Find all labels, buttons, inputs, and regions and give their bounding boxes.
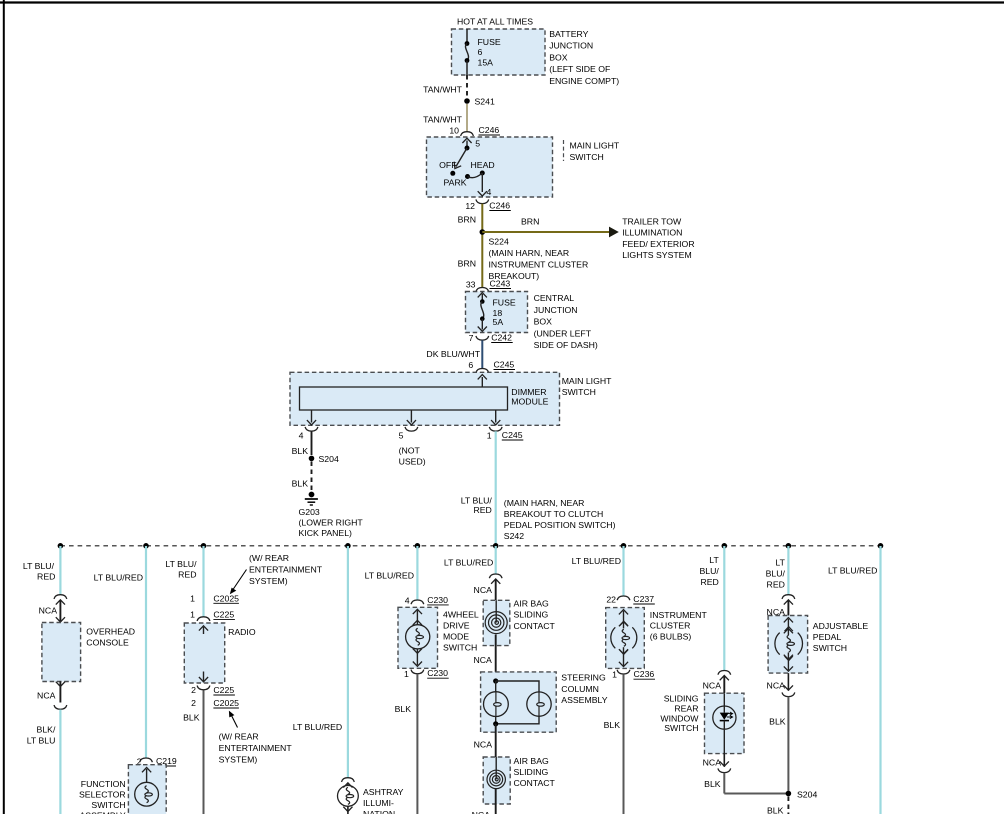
steering lamp junction bottom	[493, 721, 498, 726]
fuse 18 5A value label	[493, 297, 516, 326]
svg-text:JUNCTION: JUNCTION	[549, 41, 593, 51]
4wheel drive mode switch box	[398, 607, 438, 668]
svg-text:AIR BAG: AIR BAG	[514, 599, 549, 609]
svg-text:10: 10	[449, 126, 459, 136]
wire BLK/LT BLU col1	[59, 710, 61, 814]
svg-text:ENTERTAINMENT: ENTERTAINMENT	[249, 565, 323, 575]
svg-text:SWITCH: SWITCH	[570, 152, 604, 162]
arrow below cluster bulb	[619, 649, 628, 654]
svg-text:SWITCH: SWITCH	[813, 643, 847, 653]
svg-text:(6 BULBS): (6 BULBS)	[650, 631, 692, 641]
svg-text:LT: LT	[709, 555, 719, 565]
adjustable pedal switch label	[813, 621, 869, 653]
wire fuse 6 bottom lead	[466, 61, 468, 76]
svg-text:RED: RED	[178, 570, 196, 580]
wire NCA steering to airbag B	[495, 724, 497, 757]
svg-text:ILLUMI-: ILLUMI-	[363, 798, 394, 808]
arrow into cluster	[619, 610, 628, 615]
svg-text:(MAIN HARN, NEAR: (MAIN HARN, NEAR	[504, 498, 585, 508]
svg-text:NCA: NCA	[703, 681, 722, 691]
connector symbol C242	[476, 336, 489, 340]
sliding rear window switch box	[705, 693, 745, 753]
wire BLK srw to elbow	[723, 773, 725, 794]
svg-text:S241: S241	[475, 97, 495, 107]
svg-text:RED: RED	[767, 580, 785, 590]
contact OFF	[450, 171, 455, 176]
svg-text:JUNCTION: JUNCTION	[534, 305, 578, 315]
svg-text:C2025: C2025	[213, 698, 239, 708]
svg-text:(NOT: (NOT	[399, 446, 421, 456]
wire NCA to airbag A	[495, 580, 497, 601]
svg-text:1: 1	[190, 593, 195, 603]
svg-text:BLK: BLK	[395, 704, 412, 714]
wire pedal box to connector	[787, 673, 789, 691]
svg-text:C243: C243	[490, 279, 511, 289]
contact PARK	[465, 174, 470, 179]
svg-text:BLK: BLK	[704, 779, 721, 789]
air bag sliding contact label B	[514, 756, 556, 788]
arrow below pedal lamp	[784, 655, 793, 660]
svg-text:C2025: C2025	[213, 593, 239, 603]
svg-text:2: 2	[191, 698, 196, 708]
svg-text:C230: C230	[427, 595, 448, 605]
switch wiper to OFF	[456, 148, 467, 167]
connector symbol C245 pin 6	[476, 369, 489, 373]
radio box	[184, 623, 224, 683]
arrow into overhead console	[56, 617, 65, 622]
svg-text:12: 12	[465, 201, 475, 211]
connector col9 lower	[782, 692, 795, 696]
wire dimmer pin 1 shaft	[495, 410, 497, 423]
svg-text:PEDAL POSITION SWITCH): PEDAL POSITION SWITCH)	[504, 520, 616, 530]
wire dimmer pin 4 shaft	[311, 410, 313, 423]
svg-text:BRN: BRN	[458, 259, 476, 269]
bus junction x=495.7	[493, 543, 499, 549]
wire cluster top shaft	[623, 611, 625, 629]
svg-text:NCA: NCA	[473, 655, 492, 665]
wire srw box to connector	[723, 754, 725, 767]
bus junction x=146	[143, 543, 149, 549]
wire steering lamps top rail	[496, 681, 539, 692]
svg-text:S204: S204	[319, 454, 339, 464]
svg-text:REAR: REAR	[674, 703, 698, 713]
page border top	[0, 1, 1004, 3]
svg-text:OVERHEAD: OVERHEAD	[86, 627, 135, 637]
svg-text:NCA: NCA	[703, 757, 722, 767]
wire BLK pin 4 to S204	[311, 431, 313, 455]
svg-text:4: 4	[405, 595, 410, 605]
svg-text:SYSTEM): SYSTEM)	[249, 576, 288, 586]
arrow above pedal lamp	[784, 629, 793, 634]
svg-text:SELECTOR: SELECTOR	[79, 789, 126, 799]
wire HEAD to pin 4	[481, 173, 483, 192]
arrow into 4wd switch	[413, 609, 422, 614]
svg-text:SLIDING: SLIDING	[514, 610, 549, 620]
wire NCA to pedal switch	[787, 601, 789, 616]
svg-text:ADJUSTABLE: ADJUSTABLE	[813, 621, 869, 631]
svg-text:BLU/: BLU/	[766, 569, 786, 579]
connector symbol C246 pin 12	[476, 199, 489, 203]
svg-text:ASSEMBLY: ASSEMBLY	[79, 811, 125, 814]
wire BLK 4wd ground	[416, 674, 418, 814]
svg-text:FUNCTION: FUNCTION	[81, 779, 126, 789]
svg-text:MODULE: MODULE	[511, 397, 548, 407]
svg-text:C237: C237	[633, 594, 654, 604]
svg-text:LT BLU/: LT BLU/	[23, 561, 55, 571]
connector symbol C225 pin 2	[197, 686, 210, 690]
bus junction x=880.5	[878, 543, 884, 549]
arrow into pin 5	[462, 138, 471, 143]
main light switch dimmer box	[290, 372, 560, 425]
wire NCA console exit	[59, 681, 61, 702]
svg-text:OFF: OFF	[439, 160, 456, 170]
arrow dimmer pin 4	[307, 420, 316, 425]
svg-text:S224: S224	[489, 237, 509, 247]
svg-text:6: 6	[478, 47, 483, 57]
wire NCA airbag A to steering	[495, 635, 497, 682]
steering column lamp right	[527, 692, 551, 716]
svg-text:ILLUMINATION: ILLUMINATION	[622, 228, 682, 238]
wire BLK pedal to S204	[787, 697, 789, 794]
svg-text:BREAKOUT TO CLUTCH: BREAKOUT TO CLUTCH	[504, 509, 603, 519]
svg-text:ASSEMBLY: ASSEMBLY	[561, 695, 607, 705]
arrow into pedal switch	[784, 618, 793, 623]
svg-text:LT BLU/: LT BLU/	[165, 559, 197, 569]
LED sliding rear window	[713, 693, 736, 753]
svg-text:22: 22	[606, 595, 616, 605]
svg-text:(W/ REAR: (W/ REAR	[219, 732, 259, 742]
illumination lamp function selector	[135, 782, 159, 806]
function selector label	[79, 779, 126, 814]
svg-text:NATION: NATION	[363, 809, 395, 814]
arrow col8 upper	[720, 676, 729, 681]
label NOT USED	[399, 446, 426, 467]
4wheel drive mode switch label	[443, 610, 479, 653]
wire fuse 6 top lead	[466, 29, 468, 43]
wire LT BLU/RED col4	[347, 546, 349, 778]
wire BLK below S204	[787, 797, 789, 814]
connector col8 upper	[718, 671, 731, 675]
label LT BLU/ RED col8	[699, 555, 719, 587]
ground G203 symbol	[305, 492, 318, 505]
svg-text:PARK: PARK	[444, 178, 467, 188]
arrow to C2025 upper	[233, 570, 247, 590]
wire LT BLU/RED col8	[723, 546, 725, 671]
svg-text:5A: 5A	[493, 317, 504, 327]
svg-text:BRN: BRN	[521, 217, 539, 227]
arrow dimmer pin 1	[491, 420, 500, 425]
4wd mode switch lamp	[406, 625, 430, 649]
splice S204 left	[309, 456, 315, 462]
instrument cluster box	[606, 608, 645, 669]
svg-text:1: 1	[404, 669, 409, 679]
wire left lamp bottom lead	[495, 717, 497, 724]
wire LT BLU/RED col10	[879, 546, 881, 814]
arrow above cluster bulb	[619, 622, 628, 627]
svg-text:5: 5	[399, 431, 404, 441]
svg-text:G203: G203	[299, 507, 320, 517]
svg-text:USED): USED)	[399, 457, 426, 467]
splice S241	[464, 98, 470, 104]
svg-text:DK BLU/WHT: DK BLU/WHT	[426, 349, 480, 359]
central junction box	[466, 292, 528, 333]
svg-text:BLK: BLK	[767, 806, 784, 814]
label ashtray illumination	[363, 787, 404, 814]
arrow out of radio	[199, 677, 208, 682]
function selector switch assembly box	[128, 765, 166, 814]
wire switch pin 5 shaft	[466, 141, 468, 149]
bus junction x=417.4	[415, 543, 421, 549]
svg-text:TRAILER TOW: TRAILER TOW	[622, 217, 682, 227]
svg-text:SWITCH: SWITCH	[562, 387, 596, 397]
steering column assembly label	[561, 673, 607, 705]
svg-text:RED: RED	[700, 577, 718, 587]
svg-text:BLK/: BLK/	[37, 725, 56, 735]
svg-text:CENTRAL: CENTRAL	[534, 293, 575, 303]
svg-text:STEERING: STEERING	[561, 673, 606, 683]
arrow above 4wd lamp	[413, 620, 422, 625]
central junction box label	[534, 293, 598, 350]
arrow col4	[343, 783, 352, 788]
svg-text:TAN/WHT: TAN/WHT	[423, 115, 463, 125]
connector symbol C225 pin 1	[197, 617, 210, 621]
wire LT BLU/RED col3	[202, 546, 204, 617]
svg-text:COLUMN: COLUMN	[561, 684, 599, 694]
splice S224	[480, 229, 486, 235]
connector symbol C236	[617, 670, 630, 674]
svg-text:KICK PANEL): KICK PANEL)	[299, 528, 353, 538]
svg-text:BLU/: BLU/	[699, 566, 719, 576]
wire NCA col1 to console	[59, 601, 61, 622]
bus junction x=724.3	[722, 543, 728, 549]
wire fuse 18 bottom lead	[481, 319, 483, 330]
svg-text:NCA: NCA	[39, 606, 58, 616]
wire TAN/WHT fuse to S241	[466, 75, 468, 97]
arrow col1 upper	[56, 600, 65, 605]
arrow to trailer tow system	[609, 227, 619, 238]
svg-text:BLK: BLK	[769, 717, 786, 727]
svg-text:INSTRUMENT: INSTRUMENT	[650, 610, 708, 620]
wire DK BLU/WHT C242 to C245	[481, 340, 483, 369]
svg-text:C242: C242	[491, 333, 512, 343]
svg-text:LT BLU/RED: LT BLU/RED	[365, 571, 414, 581]
svg-text:ASHTRAY: ASHTRAY	[363, 787, 404, 797]
main light switch label tick	[563, 140, 565, 161]
fuse 6 15A	[465, 41, 470, 63]
svg-text:FEED/ EXTERIOR: FEED/ EXTERIOR	[622, 239, 694, 249]
main light switch label	[570, 141, 620, 163]
svg-text:MAIN LIGHT: MAIN LIGHT	[562, 376, 612, 386]
svg-text:C245: C245	[494, 360, 515, 370]
bus wire LT BLU/RED	[60, 545, 880, 547]
svg-text:HEAD: HEAD	[471, 160, 495, 170]
bus junction x=788.4	[786, 543, 792, 549]
connector symbol dimmer pin 5	[405, 427, 418, 431]
svg-text:ENTERTAINMENT: ENTERTAINMENT	[219, 743, 293, 753]
arrow out of srw switch	[720, 761, 729, 766]
fuse 6 15A value label	[478, 37, 501, 67]
wire ashtray top lead	[347, 784, 349, 786]
overhead console box	[42, 623, 81, 682]
svg-text:HOT AT ALL TIMES: HOT AT ALL TIMES	[457, 17, 533, 27]
bus junction x=60.4	[58, 543, 64, 549]
connector symbol C246 pin 10	[461, 132, 474, 136]
svg-text:SIDE OF DASH): SIDE OF DASH)	[534, 340, 598, 350]
svg-text:(LOWER RIGHT: (LOWER RIGHT	[299, 518, 364, 528]
arrow into CJB	[478, 293, 487, 298]
svg-text:BATTERY: BATTERY	[549, 29, 588, 39]
wire dimmer pin 5 shaft	[410, 410, 412, 423]
switch common node pin 5	[465, 146, 470, 151]
wire LT BLU/RED col9	[787, 546, 789, 595]
svg-text:BLK: BLK	[292, 446, 309, 456]
svg-text:1: 1	[190, 609, 195, 619]
main light switch label 2	[562, 376, 612, 397]
svg-text:PEDAL: PEDAL	[813, 632, 842, 642]
svg-text:NCA: NCA	[767, 681, 786, 691]
arrow ashtray bottom	[343, 807, 352, 812]
svg-text:DIMMER: DIMMER	[511, 387, 546, 397]
dimmer module label	[511, 387, 548, 407]
svg-text:C246: C246	[489, 201, 510, 211]
instrument cluster bulbs symbol	[611, 621, 637, 654]
wire steering lamps bottom rail	[496, 716, 539, 724]
svg-text:MODE: MODE	[443, 632, 469, 642]
arrow into radio	[199, 626, 208, 631]
bus junction x=203.5	[201, 543, 207, 549]
svg-text:(W/ REAR: (W/ REAR	[249, 553, 289, 563]
wire into spiral A	[495, 600, 497, 622]
svg-text:SWITCH: SWITCH	[91, 800, 125, 810]
svg-text:BOX: BOX	[549, 52, 568, 62]
connector col6	[489, 574, 502, 578]
svg-text:S242: S242	[504, 531, 524, 541]
svg-text:SLIDING: SLIDING	[514, 767, 549, 777]
adjustable pedal switch lamp symbol	[775, 627, 803, 661]
svg-text:WINDOW: WINDOW	[660, 713, 699, 723]
svg-text:CONTACT: CONTACT	[514, 621, 556, 631]
svg-text:ENGINE COMPT): ENGINE COMPT)	[549, 76, 619, 86]
wire LT BLU/RED col1	[59, 546, 61, 595]
svg-text:LT BLU/RED: LT BLU/RED	[94, 572, 143, 582]
sliding rear window switch label	[660, 694, 699, 734]
wire BRN C246 to S224	[481, 204, 483, 288]
svg-text:NCA: NCA	[37, 691, 56, 701]
steering column assembly box	[481, 672, 557, 732]
wire NCA to srw switch	[723, 676, 725, 693]
wire fuse 18 top lead	[481, 294, 483, 302]
svg-text:(MAIN HARN, NEAR: (MAIN HARN, NEAR	[489, 248, 570, 258]
page border left	[3, 0, 5, 814]
label trailer tow illumination system	[622, 217, 694, 261]
svg-text:RED: RED	[37, 571, 55, 581]
wire pedal top shaft	[787, 619, 789, 635]
arrow below 4wd lamp	[413, 649, 422, 654]
battery junction box	[452, 29, 546, 75]
air bag sliding contact label A	[514, 599, 556, 631]
svg-text:S204: S204	[797, 790, 817, 800]
arrow col6	[491, 579, 500, 584]
connector symbol C230 pin 1	[411, 670, 424, 674]
arrow dimmer pin 5	[407, 420, 416, 425]
bus junction x=623.5	[621, 543, 627, 549]
label G203 lower right kick panel	[299, 507, 364, 538]
svg-text:5: 5	[475, 139, 480, 149]
svg-text:(UNDER LEFT: (UNDER LEFT	[534, 328, 592, 338]
svg-text:INSTRUMENT CLUSTER: INSTRUMENT CLUSTER	[489, 260, 589, 270]
svg-text:AIR BAG: AIR BAG	[514, 756, 549, 766]
arrow col9 upper	[784, 600, 793, 605]
ashtray illumination lamp	[338, 786, 359, 807]
wire left lamp top lead	[495, 681, 497, 692]
wire below airbag B	[495, 789, 497, 814]
svg-text:33: 33	[466, 280, 476, 290]
wire radio exit shaft	[203, 672, 205, 682]
connector symbol C245 pin 1	[489, 427, 502, 431]
wire into spiral B	[495, 757, 497, 779]
svg-text:1: 1	[612, 670, 617, 680]
arrow out of pedal switch	[784, 666, 793, 671]
svg-text:C230: C230	[427, 668, 448, 678]
connector col1 lower	[54, 705, 67, 709]
svg-text:LIGHTS SYSTEM: LIGHTS SYSTEM	[622, 250, 692, 260]
wire pin 6 shaft	[481, 377, 483, 387]
svg-text:FUSE: FUSE	[493, 297, 516, 307]
air bag sliding contact spiral A	[485, 612, 507, 634]
connector col4	[342, 778, 355, 782]
svg-text:RED: RED	[473, 505, 491, 515]
svg-text:C246: C246	[479, 125, 500, 135]
connector symbol C230 pin 4	[411, 600, 424, 604]
arrow out of cluster	[619, 662, 628, 667]
wire BRN branch to trailer tow	[482, 231, 609, 233]
connector col9 upper	[782, 595, 795, 599]
svg-text:SYSTEM): SYSTEM)	[219, 755, 258, 765]
label LT BLU/ RED col9	[766, 558, 786, 590]
svg-text:CONTACT: CONTACT	[514, 778, 556, 788]
svg-text:SWITCH: SWITCH	[443, 643, 477, 653]
arrow out pin 4	[478, 191, 487, 196]
bus junction x=347.9	[345, 543, 351, 549]
label S224 main harn breakout	[489, 237, 589, 282]
wire BLK S204 to G203	[311, 462, 313, 491]
air bag sliding contact box B	[483, 757, 510, 804]
wire cluster bottom shaft	[623, 647, 625, 665]
arrow into dimmer pin 6	[478, 375, 487, 380]
svg-text:NCA: NCA	[472, 810, 491, 814]
svg-text:4WHEEL: 4WHEEL	[443, 610, 479, 620]
connector symbol C237	[617, 596, 630, 600]
svg-text:SWITCH: SWITCH	[664, 723, 698, 733]
wire 4wd top shaft	[416, 611, 418, 625]
air bag sliding contact box A	[483, 600, 510, 645]
svg-text:NCA: NCA	[474, 740, 493, 750]
svg-text:LT BLU/RED: LT BLU/RED	[444, 557, 493, 567]
svg-text:6: 6	[468, 360, 473, 370]
wire ashtray bottom lead	[347, 806, 349, 814]
svg-text:BLK: BLK	[183, 713, 200, 723]
svg-text:C236: C236	[634, 669, 655, 679]
svg-text:2: 2	[191, 685, 196, 695]
svg-text:1: 1	[487, 431, 492, 441]
wire LT BLU/RED col6 below bus	[495, 546, 497, 574]
svg-text:BRN: BRN	[458, 215, 476, 225]
overhead console label	[86, 627, 135, 648]
svg-text:SLIDING: SLIDING	[664, 694, 699, 704]
wire LT BLU/RED col5	[416, 546, 418, 600]
svg-text:LT BLU/RED: LT BLU/RED	[293, 722, 342, 732]
battery junction box label	[549, 29, 619, 86]
